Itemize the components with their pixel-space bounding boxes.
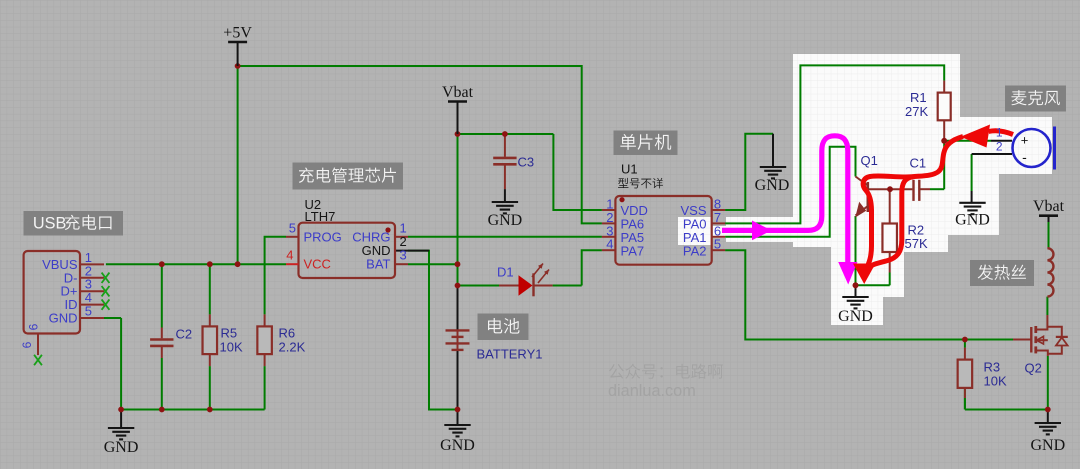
svg-text:6: 6 bbox=[27, 323, 41, 330]
svg-text:10K: 10K bbox=[984, 374, 1007, 389]
svg-text:D1: D1 bbox=[497, 265, 514, 280]
svg-text:27K: 27K bbox=[905, 104, 928, 119]
svg-text:2.2K: 2.2K bbox=[279, 340, 306, 355]
svg-text:BATTERY1: BATTERY1 bbox=[477, 347, 543, 362]
svg-text:6: 6 bbox=[20, 341, 34, 348]
svg-text:4: 4 bbox=[286, 248, 293, 263]
svg-text:GND: GND bbox=[104, 439, 139, 456]
svg-text:PA7: PA7 bbox=[621, 243, 645, 258]
svg-text:2: 2 bbox=[996, 140, 1003, 154]
svg-text:GND: GND bbox=[49, 311, 78, 326]
svg-text:R3: R3 bbox=[984, 360, 1001, 375]
svg-text:5: 5 bbox=[289, 220, 296, 235]
svg-text:GND: GND bbox=[955, 211, 990, 228]
svg-text:USB: USB bbox=[33, 215, 66, 233]
svg-text:Q1: Q1 bbox=[861, 153, 878, 168]
svg-text:C2: C2 bbox=[176, 327, 193, 342]
svg-text:C1: C1 bbox=[910, 156, 927, 171]
svg-text:R1: R1 bbox=[910, 90, 927, 105]
svg-text:4: 4 bbox=[606, 237, 613, 252]
svg-text:U1: U1 bbox=[621, 162, 638, 177]
svg-text:GND: GND bbox=[1030, 437, 1065, 454]
svg-text:C3: C3 bbox=[518, 155, 535, 170]
svg-text:GND: GND bbox=[838, 308, 873, 325]
svg-text:+: + bbox=[1021, 133, 1029, 148]
svg-text:Q2: Q2 bbox=[1025, 361, 1042, 376]
svg-text:3: 3 bbox=[400, 248, 407, 263]
svg-text:LTH7: LTH7 bbox=[305, 209, 336, 224]
svg-text:1: 1 bbox=[400, 220, 407, 235]
svg-text:+5V: +5V bbox=[223, 25, 252, 42]
svg-text:GND: GND bbox=[488, 212, 523, 229]
svg-text:BAT: BAT bbox=[366, 257, 390, 272]
svg-text:GND: GND bbox=[440, 437, 475, 454]
svg-text:5: 5 bbox=[85, 304, 92, 319]
svg-text:R6: R6 bbox=[279, 326, 296, 341]
svg-text:PROG: PROG bbox=[304, 229, 342, 244]
svg-text:10K: 10K bbox=[220, 340, 243, 355]
svg-text:CHRG: CHRG bbox=[352, 229, 390, 244]
svg-text:dianlua.com: dianlua.com bbox=[608, 382, 696, 400]
svg-text:57K: 57K bbox=[905, 236, 928, 251]
svg-text:Vbat: Vbat bbox=[442, 84, 474, 101]
svg-text:-: - bbox=[1022, 149, 1027, 165]
svg-text:VCC: VCC bbox=[304, 257, 331, 272]
svg-text:GND: GND bbox=[755, 177, 790, 194]
svg-text:Vbat: Vbat bbox=[1033, 198, 1065, 215]
svg-text:5: 5 bbox=[714, 237, 721, 252]
svg-text:1: 1 bbox=[996, 126, 1003, 140]
svg-text:R5: R5 bbox=[221, 326, 238, 341]
svg-text:PA2: PA2 bbox=[683, 243, 707, 258]
